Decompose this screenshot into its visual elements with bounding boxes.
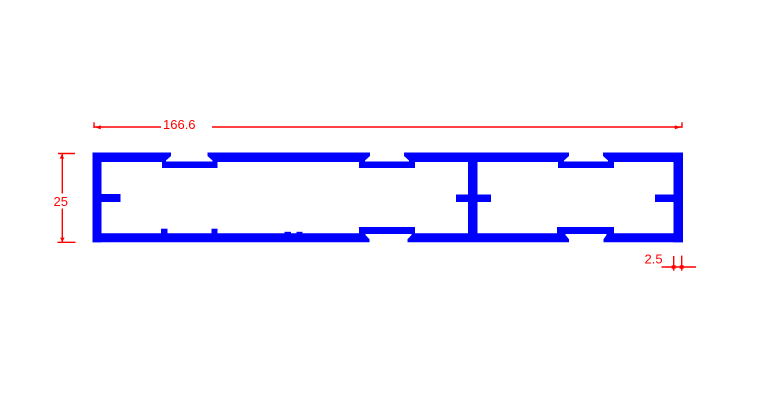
svg-text:2.5: 2.5 — [645, 252, 663, 267]
bottom rib 3 — [285, 232, 292, 234]
top wall segment 1 — [93, 153, 172, 163]
dim 25 bottom cap — [58, 241, 76, 243]
bottom raised band C — [557, 227, 614, 234]
left wall — [93, 153, 102, 243]
dim 166.6 line right segment — [212, 126, 682, 128]
dim 166.6 left arrowhead — [95, 125, 101, 129]
dim 2.5 tick 1 — [673, 256, 675, 271]
left wall tab — [102, 194, 121, 202]
dim 2.5 arrow dot 2 — [680, 265, 684, 268]
right wall — [674, 153, 684, 243]
svg-text:25: 25 — [54, 194, 68, 209]
top recessed band A — [162, 162, 218, 169]
right wall tab — [655, 195, 674, 203]
dim 2.5 arrow dot 1 — [672, 265, 676, 268]
top wall segment 3 — [404, 153, 569, 163]
dim 166.6 left extension tick — [93, 122, 95, 128]
top wall segment 2 — [208, 153, 371, 163]
bottom wall segment 2 — [408, 233, 570, 242]
dim 25 bottom arrowhead — [60, 238, 65, 242]
bottom raised band B — [359, 227, 415, 234]
bottom rib 4 — [297, 232, 303, 234]
dim 25 line lower segment — [61, 209, 63, 243]
dim 2.5 tick 2 — [681, 256, 683, 271]
dim 25 top cap — [58, 153, 75, 155]
dim 25 line upper segment — [61, 154, 63, 194]
bottom wall segment 3 — [604, 233, 684, 242]
bottom rib 2 — [212, 229, 218, 234]
dim 2.5 leader line — [662, 266, 697, 268]
dim 25 top arrowhead — [60, 154, 64, 159]
bottom rib 1 — [161, 229, 168, 234]
dim 166.6 line left segment — [94, 126, 161, 128]
top recessed band C — [558, 162, 614, 169]
top recessed band B — [359, 162, 415, 169]
divider cross tab — [456, 195, 491, 203]
dim 166.6 right extension tick — [681, 122, 683, 128]
dim 166.6 right arrowhead — [675, 125, 681, 129]
bottom wall segment 1 — [93, 233, 370, 242]
middle divider wall — [468, 162, 478, 234]
svg-text:166.6: 166.6 — [163, 117, 196, 132]
top wall segment 4 — [603, 153, 683, 163]
